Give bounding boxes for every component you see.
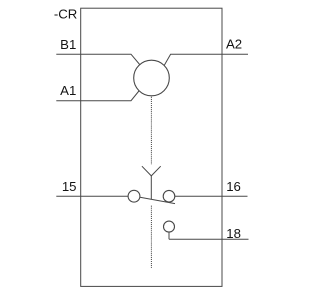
- enclosure border frame: [81, 8, 222, 286]
- wire 15: [56, 195, 128, 197]
- svg-text:-CR: -CR: [54, 6, 77, 21]
- svg-text:B1: B1: [60, 37, 76, 52]
- contact terminal 18 (circle): [164, 221, 175, 232]
- wire 18 vertical drop: [168, 232, 170, 239]
- svg-text:15: 15: [62, 179, 77, 194]
- wire 18: [169, 238, 249, 240]
- actuator stem: [150, 176, 152, 199]
- wire A2: [164, 54, 248, 65]
- coil CR (circle): [134, 60, 170, 96]
- actuator fork: [142, 166, 161, 176]
- svg-text:18: 18: [226, 226, 241, 241]
- contact terminal 16 (circle): [163, 190, 175, 202]
- contact lever 15-18: [140, 197, 175, 203]
- svg-text:16: 16: [226, 179, 241, 194]
- wire A1: [56, 91, 139, 101]
- svg-text:A1: A1: [60, 83, 76, 98]
- mechanical link (dotted, coil to actuator): [150, 97, 152, 165]
- contact terminal 15 (circle): [128, 190, 140, 202]
- svg-text:A2: A2: [226, 37, 242, 52]
- wire B1: [56, 54, 140, 65]
- wire 16: [175, 195, 248, 197]
- mechanical link (dotted, below contact): [150, 206, 152, 268]
